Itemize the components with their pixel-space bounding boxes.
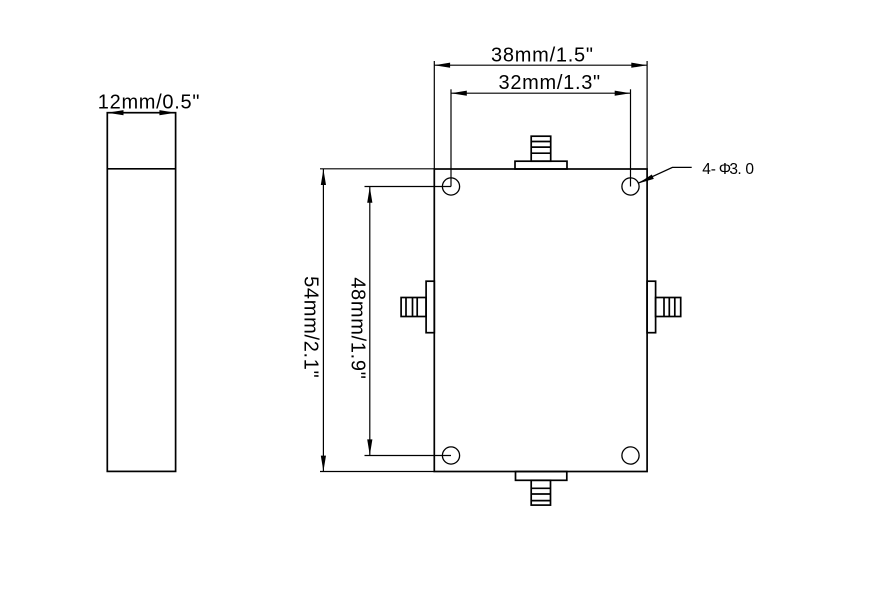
svg-text:0: 0 [745, 161, 754, 178]
svg-text:.: . [737, 161, 741, 178]
svg-text:48mm/1.9": 48mm/1.9" [346, 277, 368, 379]
svg-text:12mm/0.5": 12mm/0.5" [98, 91, 200, 113]
svg-text:54mm/2.1": 54mm/2.1" [299, 276, 321, 378]
svg-text:32mm/1.3": 32mm/1.3" [499, 72, 601, 94]
svg-text:38mm/1.5": 38mm/1.5" [491, 45, 594, 67]
svg-text:-: - [711, 161, 716, 178]
